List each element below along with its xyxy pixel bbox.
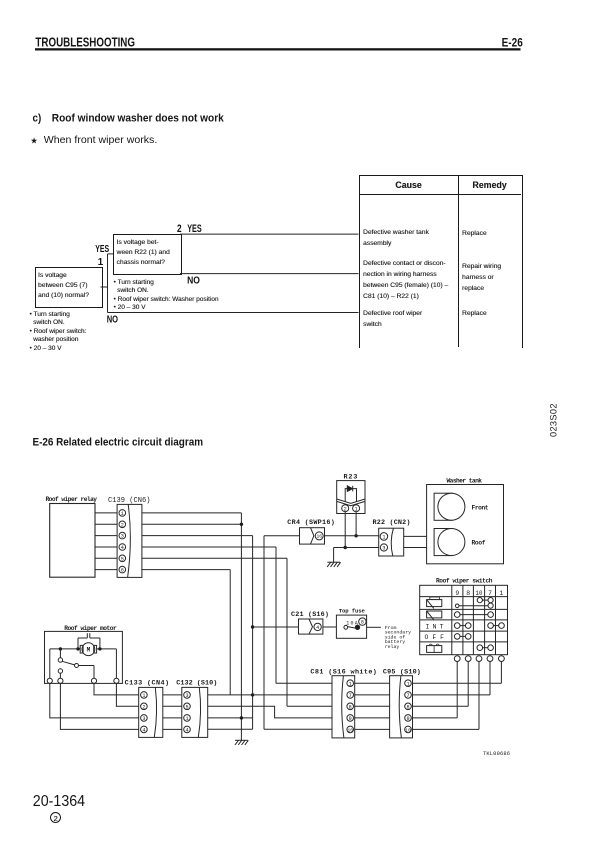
wire term2 to C133 pin4 [60,683,138,729]
pin 10 C95 [405,726,412,733]
ground chassis top [327,562,340,567]
capacitor across motor [78,633,100,649]
pin 3 C139 [119,532,126,539]
connector CR4 (SWP16) [287,519,335,544]
wire YES 2 to table row1 [180,233,359,235]
wire C81-C95 row4 [355,717,390,719]
switch terminal 8 [465,656,471,662]
pin 3 R22 [380,544,387,552]
wire fuse to battery relay source [367,625,412,650]
switch Roof wiper switch [420,577,508,654]
junction dot cap left [76,647,79,650]
connector mate line R23 [337,499,365,506]
pin 10 C81 [347,726,354,733]
wire C132 pin4 row to V3 [208,728,253,730]
switch terminal 10 [476,656,482,662]
contact motor park b [58,669,62,673]
box 2 [113,234,182,275]
wire C132 pin5 row jog [208,706,332,718]
contact INT col9-col8 [454,623,471,629]
pin 4 C132 [184,726,191,733]
wire C133-C132 row4 [163,728,182,730]
pin 1 C95 [405,680,412,687]
icon wipe row [427,611,442,620]
terminal 3 motor [91,678,96,683]
wire C139 pin3 to node V3 [142,535,253,537]
wire C81-C95 row2 [355,694,390,696]
pin 9 C95 [405,715,412,722]
fuse Top fuse 10A [336,608,366,639]
pin 1 C139 [119,510,126,517]
pin 4 C133 [141,726,148,733]
wire C95 pin8 to switch term8 [413,662,469,707]
junction dot cap right [98,647,101,650]
wire vertical V4 CR4 down [263,536,265,729]
pin 4 C139 [119,544,126,551]
contact OFF col9-col8 [454,634,471,640]
wire below contact b [59,673,61,678]
contact row2 col10-col7 [477,598,493,603]
pin 5 C132 [184,703,191,710]
junction dot V3-row695 [251,693,254,696]
terminal 1 motor [47,678,52,683]
pin 3 C132 [184,692,191,699]
wire vertical V5 pin4 down [275,547,277,683]
connector C133 (CN4) [125,680,170,738]
wire V5 to C81 pin1 [276,682,332,684]
pin 1 C132 [184,715,191,722]
wire ground branch to R22 pin3 [334,547,379,549]
roof washer pump [434,529,486,556]
wire CR4 to R22 pin1 [325,535,379,537]
pin 6 C139 [119,566,126,573]
pin 5 C139 [119,555,126,562]
wire relay to C139 pin5 [95,557,117,559]
wire C133-C132 row1 [163,694,182,696]
wire motor term4 drop [115,649,117,678]
wire C132 pin3 row to C81 pin7 [208,694,332,696]
wire vertical V2 pins 1-2 to ground [240,513,242,740]
wire C133-C132 row2 [163,705,182,707]
box 1 [35,267,103,308]
ground chassis bottom [235,740,248,745]
switch terminal 7 [487,656,493,662]
wire flow box1 to junction [101,286,108,288]
diode D inside R23 [345,486,356,502]
bullets under box1 [30,311,87,354]
pin 1 C133 [141,692,148,699]
motor Roof wiper motor [45,625,123,683]
wire C133-C132 row3 [163,717,182,719]
wire C95 pin9 to switch term9 [413,662,458,718]
svg-text:023S02: 023S02 [549,404,559,438]
icon washer row [427,644,442,652]
wire C95 pin10 to switch term10 [413,662,480,730]
wire C81-C95 row3 [355,705,390,707]
junction dot R23 pin2 [344,546,347,549]
pin 8 fuse [359,618,366,626]
contact row6 col10-col7 [477,645,493,651]
terminal 2 motor [58,678,63,683]
wire relay to C139 pin4 [95,546,117,548]
wire ground drop [333,548,335,563]
pin 8 C95 [405,703,412,710]
junction dot R23 pin1 [354,534,357,537]
pin 7 C81 [347,692,354,699]
pin 2 C139 [119,521,126,528]
wire NO box1 to table row3 [108,312,359,314]
contact row2 col9-col7 [455,603,493,608]
pin 9 C81 [347,715,354,722]
junction dot V3-C21 [251,625,254,628]
pin 1 C81 [347,680,354,687]
wire flow vertical junction [107,254,109,313]
wire R22 pin3 to tank [404,547,427,549]
connector C81 (S16 white) [310,669,377,738]
wire flow junction to box2 [108,253,114,255]
junction dot ground net [240,716,243,719]
washer tank box [427,477,504,564]
wire vertical V7 pin5 down [286,558,288,706]
wire NO box2 to table row2 [180,273,359,275]
wire relay to C139 pin3 [95,535,117,537]
contact row3 col9-col7 [454,612,493,618]
wire C81-C95 row1 [355,682,390,684]
bullets under box2 [114,279,219,313]
resistor R23 [337,474,365,514]
wire vertical V1 pin6 down [229,570,231,695]
wire C139 pin1 to node V2 [142,512,242,514]
wire V7 to C81 pin8 [287,705,332,707]
wire relay to C139 pin2 [95,523,117,525]
pin 8 C81 [347,703,354,710]
pin 2 R23 [342,505,349,513]
junction dot pin2-V2 [240,523,243,526]
contact motor park c [75,664,79,668]
connector C95 (S10) [383,669,421,738]
icon wash-wipe row [427,597,442,608]
pin 7 C95 [405,692,412,699]
wire term1 to C133 pin3 [50,683,139,718]
wire R23 pin1 down [355,512,357,536]
contact motor park a [58,658,62,662]
wire C21 to fuse [323,626,337,628]
front washer pump [434,493,489,520]
pin 4 C21 [314,623,321,631]
switch blade motor [62,661,74,665]
wire term4 to C133 pin2 [116,683,138,706]
wire switch branch drop [59,649,61,658]
wire motor left brush [50,648,80,650]
pin 16 CR4 [315,532,323,540]
wire C139 pin5 to node V7 [142,557,287,559]
wire C95 pin7 to switch term7 [413,662,491,695]
connector R22 (CN2) [373,519,411,556]
pin 2 C133 [141,703,148,710]
pin 3 C133 [141,715,148,722]
wire R23 pin2 down [344,512,346,548]
connector C21 (S16) [291,611,329,634]
switch terminal 9 [454,656,460,662]
pin 1 R22 [380,533,388,541]
wire C139 pin4 to node V5 [142,546,276,548]
wire C132 pin1 row to V3 [208,717,253,719]
wire C81-C95 row5 [355,728,390,730]
Footer circled 2 [50,812,61,823]
wire V4 to CR4 [264,535,300,537]
wire C139 pin2 to node V2 [142,523,242,525]
junction dot switch branch [59,647,62,650]
terminal 4 motor [114,678,119,683]
wire motor right brush [97,648,117,650]
wire V4 to C81 pin10 [264,728,332,730]
connector C132 (S10) [176,680,217,738]
wire C95 pin1 to switch term1 [413,662,502,684]
wire term3 to C133 pin1 [94,683,139,695]
wire relay to C139 pin6 [95,569,117,571]
motor M symbol [80,643,96,656]
connector C139 (CN6) [108,497,151,578]
wire R22 pin1 to tank [404,535,427,537]
wire relay to C139 pin1 [95,512,117,514]
wire blade to term3 [79,666,95,679]
wire V3 to C21 [253,626,299,628]
pin 1 R23 [353,505,360,513]
relay box Roof wiper relay [46,496,98,577]
switch terminal 1 [499,656,505,662]
wire C139 pin6 to node V1 [142,569,230,571]
wire vertical V3 pin3 down [252,536,254,730]
wire motor term1 drop [49,649,51,678]
contact INT col7-col1 [488,623,505,629]
